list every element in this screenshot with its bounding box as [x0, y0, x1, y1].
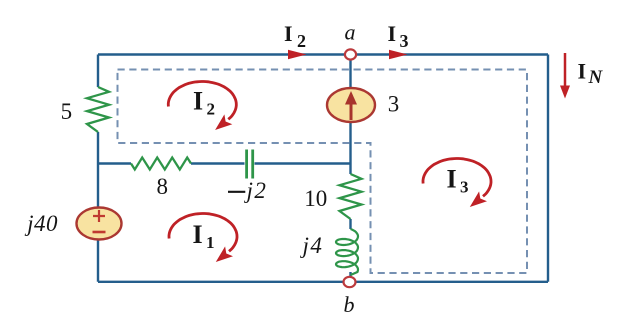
svg-text:I: I [388, 21, 397, 46]
mesh current I1 loop [169, 214, 237, 252]
wire top [98, 53, 548, 55]
wire middle horizontal [98, 162, 351, 164]
svg-text:1: 1 [206, 233, 215, 252]
resistor R 10ohm [340, 174, 362, 219]
svg-text:a: a [345, 19, 356, 44]
current source 3A [327, 88, 375, 122]
minus sign [93, 231, 106, 234]
svg-text:3: 3 [388, 92, 400, 117]
arrow I3 top [389, 50, 408, 59]
inductor j4 [336, 229, 358, 275]
resistor R 8ohm [131, 158, 191, 170]
node a [345, 49, 356, 59]
svg-text:I: I [193, 220, 203, 249]
capacitor -j2 [247, 150, 253, 179]
plus sign [93, 210, 105, 222]
svg-text:j2: j2 [244, 178, 268, 203]
svg-text:3: 3 [400, 31, 409, 51]
svg-text:2: 2 [297, 31, 306, 51]
label -j2 minus [228, 191, 245, 193]
arrow I2 top [288, 50, 307, 59]
mesh current I3 loop [423, 159, 491, 197]
wire left [97, 55, 99, 282]
svg-text:j40: j40 [24, 211, 58, 236]
norton boundary dashed [118, 70, 528, 274]
svg-text:I: I [447, 165, 457, 194]
current source arrow [350, 103, 353, 120]
mesh current I2 loop [168, 82, 236, 120]
wire middle vertical [349, 55, 351, 282]
wire right [547, 55, 549, 282]
svg-text:2: 2 [207, 100, 216, 119]
svg-text:10: 10 [304, 186, 327, 211]
resistor R 5ohm [87, 87, 109, 132]
node b [344, 277, 356, 287]
svg-text:N: N [588, 67, 604, 88]
svg-text:I: I [193, 87, 203, 116]
wire bottom [98, 281, 548, 283]
svg-text:3: 3 [460, 178, 469, 197]
voltage source j40 [77, 208, 122, 240]
svg-text:8: 8 [156, 174, 168, 199]
svg-text:5: 5 [61, 99, 73, 124]
svg-text:j4: j4 [300, 233, 324, 258]
arrow IN [564, 53, 567, 88]
svg-text:b: b [344, 292, 355, 317]
svg-text:I: I [284, 21, 293, 46]
svg-text:I: I [578, 59, 587, 84]
